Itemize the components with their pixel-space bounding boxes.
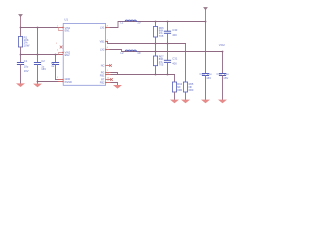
wire vertical branch bbox=[37, 28, 39, 55]
svg-text:C31: C31 bbox=[172, 57, 177, 61]
no-connect right RT bbox=[110, 78, 112, 80]
wire PGND bbox=[38, 81, 59, 83]
svg-text:U1: U1 bbox=[64, 18, 68, 22]
wire FB2 to ground bbox=[111, 83, 118, 86]
svg-text:11: 11 bbox=[107, 80, 110, 82]
pin stub VIN2 bbox=[59, 53, 64, 55]
svg-text:EN1: EN1 bbox=[65, 30, 70, 33]
capacitor C31 bbox=[164, 44, 177, 75]
svg-text:400: 400 bbox=[172, 33, 177, 37]
svg-text:VB1: VB1 bbox=[100, 41, 105, 44]
ground GND2 bbox=[33, 84, 42, 88]
svg-text:FB1: FB1 bbox=[100, 75, 105, 78]
resistor R07 bbox=[153, 44, 164, 75]
node dot H1c bbox=[205, 21, 207, 23]
wire VOUT1 column bbox=[205, 22, 207, 74]
pin stub EN1 bbox=[59, 28, 64, 31]
svg-text:0R0: 0R0 bbox=[189, 88, 194, 92]
no-connect left bbox=[60, 46, 62, 48]
no-connect right NC2 bbox=[109, 64, 111, 66]
node dot B1 bbox=[20, 54, 22, 56]
ground GND5 bbox=[181, 100, 190, 104]
capacitor C30 bbox=[164, 22, 177, 44]
node dot B3 bbox=[55, 54, 57, 56]
svg-text:C15: C15 bbox=[216, 72, 222, 76]
svg-text:LX2: LX2 bbox=[100, 48, 105, 51]
ground GND3 bbox=[113, 85, 122, 89]
node dot H4b bbox=[167, 74, 169, 76]
wire VB1 bus bbox=[108, 42, 186, 44]
node dot H1a bbox=[155, 21, 157, 23]
pin numbers right bbox=[107, 25, 110, 82]
node dot H3b bbox=[222, 51, 224, 53]
svg-text:16V: 16V bbox=[24, 69, 29, 73]
svg-text:T05: T05 bbox=[159, 34, 164, 38]
svg-text:4: 4 bbox=[57, 50, 59, 52]
resistor R06 bbox=[153, 22, 164, 44]
pin stub VIN1 bbox=[58, 27, 63, 29]
capacitor C1 bbox=[17, 55, 28, 84]
wire LX1 jog bbox=[110, 22, 206, 28]
pin hotspot dots bbox=[62, 27, 107, 84]
svg-text:T05: T05 bbox=[159, 63, 164, 67]
pin stub EN2 bbox=[59, 54, 63, 56]
capacitor C8 bbox=[216, 72, 229, 100]
ground GND1 bbox=[16, 83, 25, 87]
svg-text:10W: 10W bbox=[24, 43, 30, 47]
capacitor C2 bbox=[34, 55, 46, 84]
svg-text:L2: L2 bbox=[121, 51, 125, 55]
ground GND7 bbox=[218, 100, 227, 104]
svg-text:16V: 16V bbox=[223, 76, 228, 80]
svg-text:400: 400 bbox=[172, 62, 177, 66]
svg-text:C14: C14 bbox=[199, 72, 205, 76]
svg-text:VO2: VO2 bbox=[219, 43, 225, 47]
ground GND6 bbox=[201, 100, 210, 104]
node dot H2b bbox=[167, 43, 169, 45]
node dot A2 bbox=[37, 27, 39, 29]
capacitor C3 bbox=[51, 55, 59, 80]
wire mid-left bus bbox=[21, 54, 64, 56]
svg-text:16V: 16V bbox=[206, 76, 211, 80]
power flag VIN bbox=[18, 14, 23, 27]
svg-text:0R0: 0R0 bbox=[177, 88, 182, 92]
resistor R1 bbox=[18, 28, 29, 55]
node dot B4 bbox=[37, 81, 39, 83]
node dot H4a bbox=[155, 74, 157, 76]
ground GND4 bbox=[170, 100, 179, 104]
wire VIN bus top bbox=[21, 27, 59, 29]
svg-text:1: 1 bbox=[107, 70, 109, 72]
svg-text:C30: C30 bbox=[172, 28, 177, 32]
svg-text:C1: C1 bbox=[24, 59, 28, 63]
pin stub LX2 bbox=[106, 49, 110, 51]
svg-text:LX1: LX1 bbox=[100, 27, 105, 30]
node dot H2a bbox=[155, 43, 157, 45]
svg-text:C2: C2 bbox=[41, 59, 45, 63]
wire VOUT2 column bbox=[222, 52, 224, 74]
pin stub VB1 bbox=[106, 41, 108, 43]
pin stub NC2 bbox=[106, 65, 110, 67]
svg-text:6: 6 bbox=[107, 47, 109, 49]
wire GND pin bbox=[56, 79, 59, 81]
pin stub PGND bbox=[58, 81, 63, 83]
node dot H1b bbox=[167, 21, 169, 23]
pin stub FB1 bbox=[106, 74, 111, 76]
svg-text:EN2: EN2 bbox=[65, 54, 70, 57]
svg-text:10: 10 bbox=[137, 21, 141, 25]
node dot B2 bbox=[37, 54, 39, 56]
svg-text:3: 3 bbox=[56, 43, 58, 45]
op-amp U1 bbox=[63, 18, 105, 86]
power flag VO1 bbox=[203, 7, 208, 21]
pin stub FB2 bbox=[106, 82, 111, 84]
svg-text:16V: 16V bbox=[41, 67, 46, 71]
resistor R05 bbox=[183, 44, 194, 100]
svg-text:PGND: PGND bbox=[65, 81, 72, 84]
pin stub LX1 bbox=[106, 27, 110, 29]
svg-text:1u: 1u bbox=[51, 64, 54, 68]
pin stub GND bbox=[58, 79, 63, 81]
pin stub PG bbox=[106, 72, 111, 74]
inductor L1 bbox=[120, 20, 141, 25]
svg-text:9: 9 bbox=[57, 77, 59, 79]
pin numbers left bbox=[56, 26, 59, 80]
svg-text:10: 10 bbox=[137, 51, 141, 55]
svg-text:L1: L1 bbox=[120, 21, 124, 25]
pin stub RT bbox=[106, 79, 111, 81]
capacitor C7 bbox=[199, 72, 211, 100]
wire LX2 jog bbox=[110, 50, 223, 52]
wire PG jog bbox=[111, 73, 118, 75]
svg-text:10u: 10u bbox=[24, 64, 29, 68]
svg-text:NC: NC bbox=[101, 65, 105, 68]
node dot A1 bbox=[20, 27, 22, 29]
svg-text:FB2: FB2 bbox=[100, 81, 105, 84]
node dot H3a bbox=[155, 51, 157, 53]
inductor L2 bbox=[121, 50, 141, 55]
wire FB bus bbox=[111, 74, 175, 76]
resistor R04 bbox=[172, 75, 182, 100]
